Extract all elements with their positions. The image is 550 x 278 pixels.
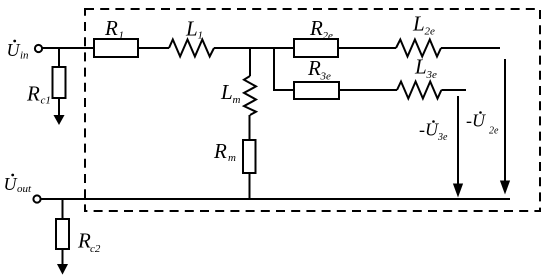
wire L1 to R2e [214, 47, 294, 49]
svg-text:-U: -U [466, 111, 486, 131]
svg-text:3e: 3e [437, 132, 448, 143]
inductor L3e [397, 82, 441, 99]
resistor Rm [243, 140, 256, 173]
svg-text:R: R [26, 82, 40, 106]
label L1 [185, 17, 203, 42]
svg-text:3e: 3e [320, 71, 332, 83]
label Rc1 [26, 82, 51, 107]
resistor R1 [94, 39, 138, 57]
svg-text:R: R [77, 229, 91, 253]
wire R1 to L1 [138, 47, 169, 49]
label -U3e [419, 120, 448, 144]
svg-text:R: R [309, 16, 323, 40]
svg-text:R: R [307, 56, 321, 80]
svg-text:2e: 2e [323, 30, 334, 42]
arrow Rc2 [58, 265, 67, 274]
svg-text:U: U [7, 40, 21, 60]
wire Rc2 bottom [62, 249, 64, 266]
svg-text:m: m [233, 94, 241, 106]
label L3e [414, 55, 437, 82]
wire Rc1 drop [58, 48, 60, 67]
svg-text:L: L [412, 12, 425, 36]
wire R3e to L3e [339, 89, 397, 91]
svg-text:c2: c2 [90, 243, 101, 255]
svg-text:-U: -U [419, 120, 439, 140]
inductor L2e [396, 40, 441, 57]
wire L2e end [441, 47, 500, 49]
arrow -U3e [454, 96, 463, 196]
svg-text:1: 1 [119, 30, 125, 42]
arrow Rc1 [54, 116, 63, 125]
wire Lm drop [249, 48, 251, 76]
svg-text:3e: 3e [426, 69, 438, 81]
label Rc2 [77, 229, 101, 256]
resistor Rc1 [53, 67, 66, 98]
label R1 [104, 16, 124, 42]
label -U2e [466, 111, 499, 137]
label Lm [220, 80, 241, 106]
svg-text:R: R [104, 16, 118, 40]
label L2e [412, 12, 435, 38]
resistor Rc2 [56, 219, 69, 249]
wire R3e branch [274, 48, 294, 90]
svg-text:L: L [414, 55, 427, 79]
wire Rc1 bottom [58, 98, 60, 117]
svg-text:2e: 2e [489, 126, 499, 137]
arrow -U2e [501, 59, 510, 193]
label R2e [309, 16, 333, 42]
svg-text:2e: 2e [425, 26, 436, 38]
svg-text:L: L [185, 17, 198, 41]
inductor Lm [244, 76, 256, 115]
inductor L1 [169, 40, 214, 57]
svg-text:U: U [4, 174, 18, 194]
terminal Uout [33, 195, 40, 202]
label Uin [7, 40, 30, 62]
wire R2e to L2e [338, 47, 396, 49]
terminal Uin [35, 45, 42, 52]
svg-text:L: L [220, 80, 233, 104]
svg-text:R: R [213, 139, 227, 163]
wire L3e end [441, 89, 466, 91]
label Rm [213, 139, 236, 164]
resistor R2e [294, 39, 338, 57]
label Uout [4, 174, 33, 195]
svg-text:out: out [17, 183, 32, 195]
label R3e [307, 56, 331, 83]
resistor R3e [294, 82, 339, 99]
svg-text:c1: c1 [41, 95, 51, 107]
svg-text:in: in [20, 50, 29, 62]
wire bottom [41, 198, 510, 200]
wire input [42, 47, 94, 49]
wire Rm bottom [249, 173, 251, 199]
svg-text:m: m [228, 152, 236, 164]
svg-text:1: 1 [198, 30, 204, 42]
wire Lm to Rm [249, 115, 251, 140]
wire Rc2 drop [62, 199, 64, 219]
dashed box [85, 9, 540, 211]
